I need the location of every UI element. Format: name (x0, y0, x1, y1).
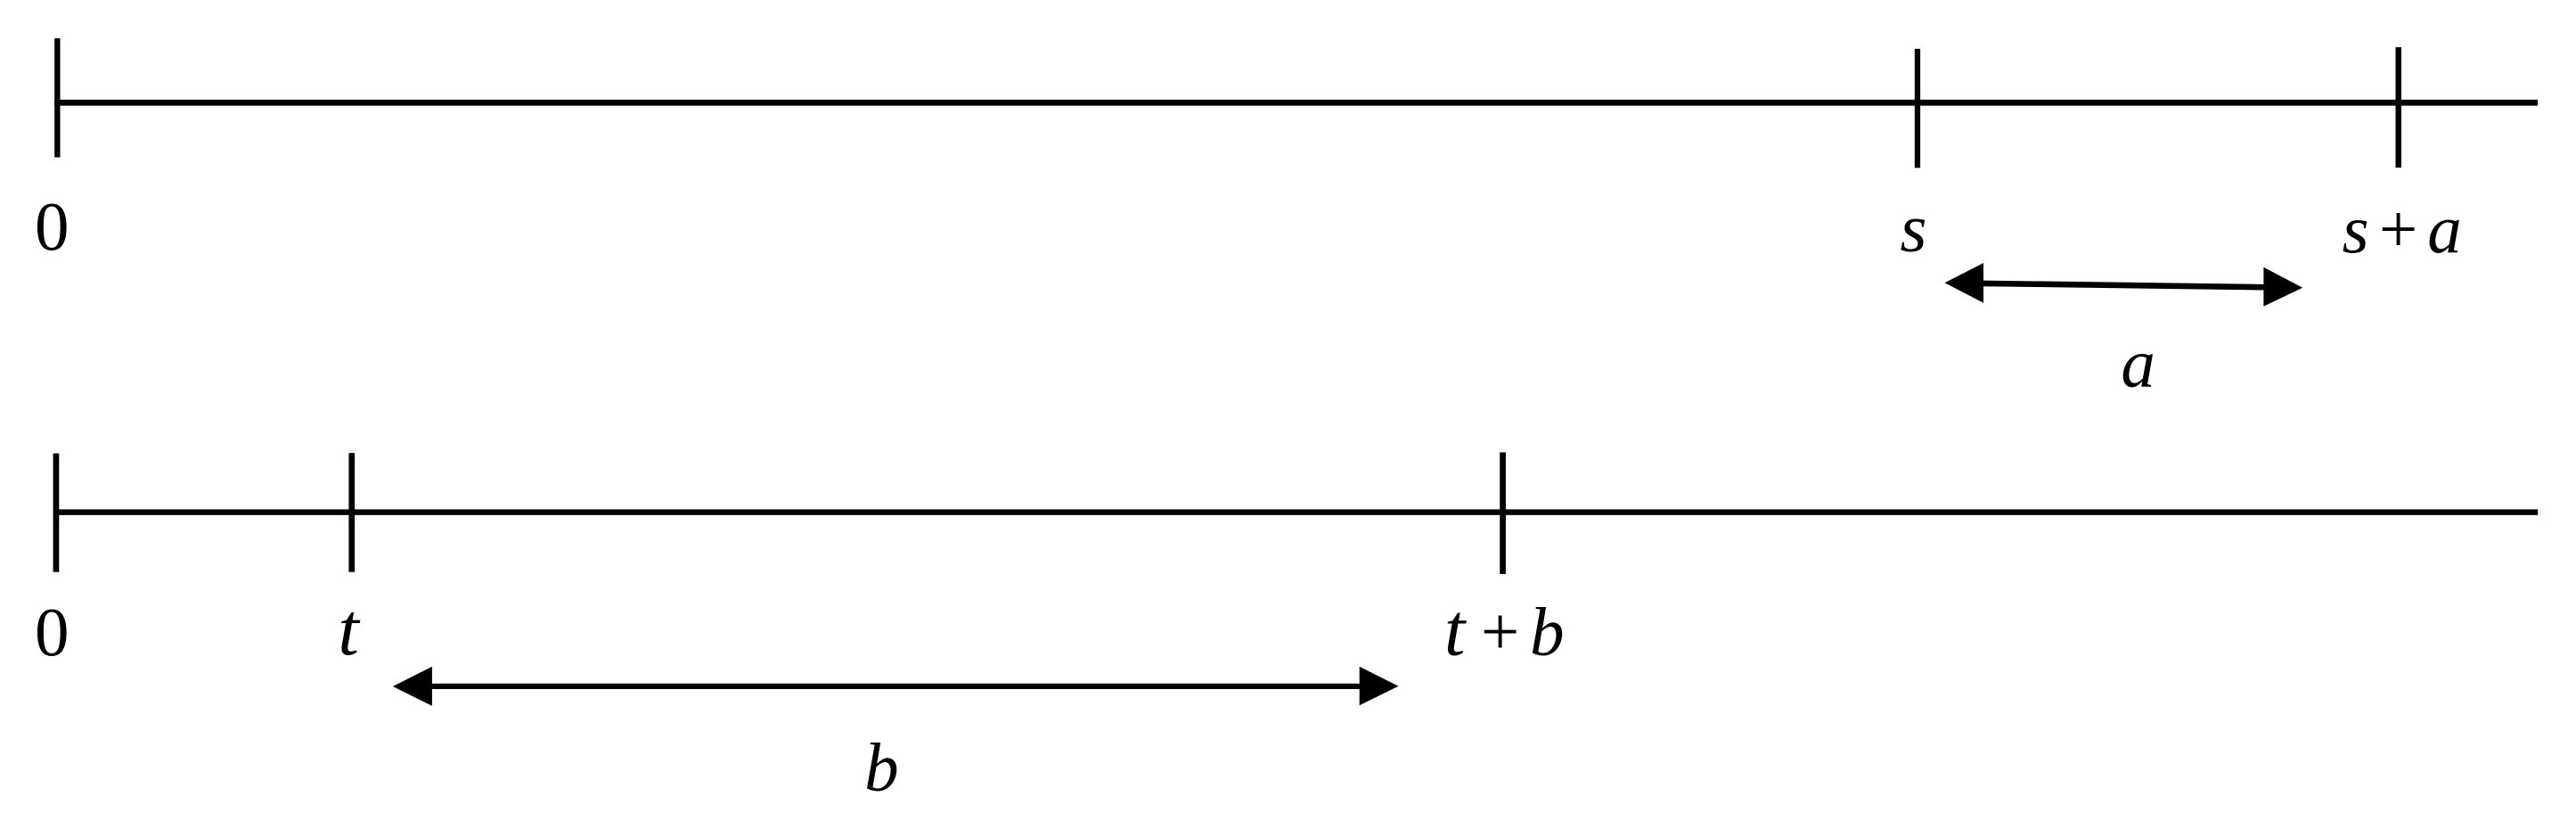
arrow b (double-headed) (393, 667, 1399, 706)
bottom timeline axis (53, 509, 2538, 514)
top tick s (1915, 49, 1920, 168)
svg-text:+: + (2379, 191, 2417, 267)
label t+b (1444, 589, 1565, 672)
bottom tick t+b (1500, 452, 1506, 574)
svg-text:t: t (338, 588, 361, 671)
bottom tick t (348, 453, 355, 572)
svg-text:b: b (1530, 594, 1565, 670)
arrow a (double-headed) (1945, 263, 2303, 307)
svg-text:+: + (1481, 594, 1519, 670)
label s+a (2343, 191, 2462, 267)
top timeline axis (54, 100, 2538, 106)
top tick 0 (54, 38, 60, 158)
svg-text:0: 0 (35, 188, 70, 265)
svg-text:s: s (1901, 190, 1927, 267)
svg-text:a: a (2121, 325, 2155, 402)
svg-text:b: b (864, 729, 899, 806)
svg-text:s: s (2343, 191, 2369, 267)
svg-text:0: 0 (35, 594, 70, 670)
svg-text:a: a (2427, 191, 2462, 267)
svg-text:t: t (1444, 589, 1468, 672)
top tick s+a (2396, 47, 2402, 168)
bottom tick 0 (53, 454, 60, 572)
